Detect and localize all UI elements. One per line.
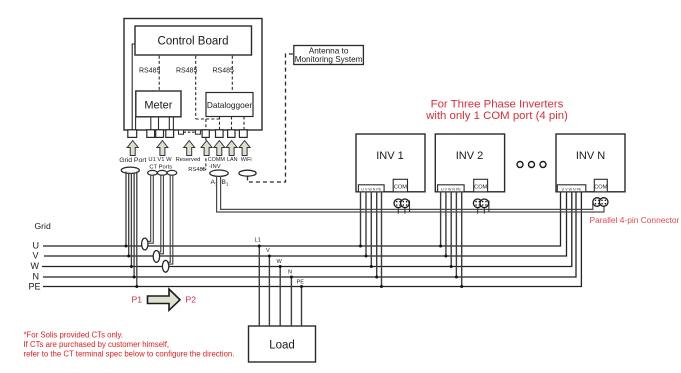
svg-text:P2: P2 <box>186 295 197 305</box>
junction INV1 U <box>359 245 362 248</box>
INV1 wire W <box>370 192 372 267</box>
WiFi terminal square <box>239 130 247 138</box>
dashed jog RS485 to COMM/INV port <box>196 118 220 120</box>
INV2 wire W <box>450 192 452 267</box>
wire meter to CT square 3 <box>168 117 170 130</box>
svg-text:INV 1: INV 1 <box>376 150 404 162</box>
inverter INV N box <box>556 134 625 192</box>
INV1 wire V <box>365 192 367 256</box>
junction INV1 V <box>365 255 368 258</box>
svg-text:INV 2: INV 2 <box>456 150 484 162</box>
CT1 wire b <box>148 175 153 244</box>
CT3 wire b <box>169 175 173 265</box>
CT ports arrow <box>157 141 168 156</box>
junction INV1 W <box>370 265 373 268</box>
W phase line <box>42 192 572 267</box>
CT3 sensor on W <box>162 260 168 272</box>
INV1 wire N <box>376 192 378 277</box>
load wire W <box>279 267 281 327</box>
svg-text:U V W N PE: U V W N PE <box>441 188 461 192</box>
junction load N <box>290 276 293 279</box>
CT2 wire b <box>160 175 164 254</box>
N neutral line <box>43 192 576 277</box>
svg-text:1: 1 <box>226 181 229 186</box>
dashed drop datalogger to COMM square <box>219 117 221 130</box>
load box <box>249 326 316 362</box>
wire meter to CT square 2 <box>158 117 160 130</box>
svg-text:U1 V1 W: U1 V1 W <box>148 157 172 163</box>
RS485 dashed link CB to Datalogger <box>231 56 233 93</box>
ellipsis dot 2 <box>529 162 535 168</box>
svg-text:N: N <box>33 272 40 282</box>
svg-text:*For Solis provided CTs only.: *For Solis provided CTs only. <box>24 331 124 340</box>
junction grid port PE <box>135 285 138 288</box>
INV2 wire U <box>440 192 442 246</box>
grid port wire N <box>133 173 135 278</box>
dashed drop datalogger to LAN square <box>231 117 233 130</box>
dash between RS485 label and line <box>202 168 205 170</box>
CT1 sensor on U <box>142 238 148 250</box>
INVN parallel 4-pin connector <box>593 198 608 207</box>
svg-text:Dataloggoer: Dataloggoer <box>207 100 252 110</box>
COMM arrow <box>214 141 225 156</box>
svg-text:-INV: -INV <box>209 164 221 170</box>
load wire PE <box>301 287 303 327</box>
svg-text:RS485: RS485 <box>139 68 161 75</box>
INV1 connector bracket <box>409 201 411 213</box>
svg-text:If CTs are purchased by custom: If CTs are purchased by customer himself… <box>24 340 170 349</box>
INVN UVWNPE terminal box <box>557 185 586 192</box>
svg-text:Meter: Meter <box>144 100 172 112</box>
svg-text:COM: COM <box>474 184 487 190</box>
svg-text:Monitoring System: Monitoring System <box>295 55 363 64</box>
junction load V <box>268 255 271 258</box>
svg-text:V: V <box>266 248 270 254</box>
V phase line <box>44 192 567 256</box>
junction grid port V <box>127 255 130 258</box>
RS485 dashed link CB to Meter <box>158 56 160 91</box>
RS485 bus wire B <box>221 176 593 209</box>
INV1 COM box <box>393 179 407 192</box>
junction grid port U <box>125 245 128 248</box>
svg-text:COMM: COMM <box>208 157 226 163</box>
svg-text:Parallel 4-pin Connector: Parallel 4-pin Connector <box>590 215 680 225</box>
svg-text:Load: Load <box>269 340 295 352</box>
INVN COM box <box>594 179 607 192</box>
wire meter to CT square 3b <box>172 117 174 130</box>
svg-text:LAN: LAN <box>227 157 238 163</box>
INV1 wire PE <box>381 192 383 287</box>
grid port wire W <box>130 173 132 266</box>
CT2 sensor on V <box>153 251 159 263</box>
svg-text:N: N <box>288 270 292 276</box>
grid port cable oval <box>121 167 139 173</box>
load wire N <box>290 277 292 326</box>
junction INV1 PE <box>380 285 383 288</box>
INV2 UVWNPE terminal box <box>438 185 465 192</box>
junction grid port W <box>130 265 133 268</box>
control board box <box>135 26 252 55</box>
INV1 wire U <box>360 192 362 246</box>
grid port wire PE <box>136 172 138 287</box>
WiFi arrow <box>239 141 250 156</box>
svg-text:P1: P1 <box>132 295 143 305</box>
ellipsis dot 3 <box>540 162 546 168</box>
svg-text:Grid: Grid <box>35 221 51 231</box>
ellipsis dot 1 <box>517 162 523 168</box>
svg-text:U: U <box>33 241 40 251</box>
U phase line <box>43 192 561 246</box>
svg-text:Control Board: Control Board <box>158 36 229 48</box>
svg-text:RS485: RS485 <box>213 68 235 75</box>
reserved connector left pin <box>179 130 184 134</box>
LAN arrow <box>226 141 237 156</box>
grid port wire V <box>128 173 130 257</box>
INV1 parallel 4-pin connector <box>394 199 409 208</box>
CT3 wire a <box>168 175 170 263</box>
junction INV2 N <box>455 276 458 279</box>
inverter INV 2 box <box>435 134 504 192</box>
COMM terminal square <box>216 130 224 138</box>
reserved connector right pin <box>195 130 200 134</box>
wire meter left to grid port square <box>135 117 137 130</box>
CT terminal square 1 <box>147 130 155 138</box>
svg-text:with only 1 COM port (4 pin): with only 1 COM port (4 pin) <box>425 110 568 122</box>
svg-text:PE: PE <box>29 282 41 292</box>
grid port arrow <box>127 141 138 156</box>
datalogger box <box>206 93 253 117</box>
control board outer enclosure <box>124 19 262 131</box>
dashed drop datalogger to WiFi square <box>243 117 245 130</box>
junction INV2 W <box>450 265 453 268</box>
grid port wire U <box>125 172 127 247</box>
dashed drop to RS485-INV square <box>205 119 207 130</box>
reserved arrow <box>184 141 195 156</box>
RS485-INV terminal square <box>202 130 209 138</box>
INV1 UVWNPE terminal box <box>358 185 384 192</box>
junction load W <box>279 265 282 268</box>
junction load L1 <box>258 245 261 248</box>
RS485 dashed link CB middle <box>195 56 197 119</box>
svg-text:refer to the CT terminal spec: refer to the CT terminal spec below to c… <box>24 350 235 359</box>
PE earth line <box>43 192 581 287</box>
wire meter to CT square 1 <box>150 117 152 130</box>
CT cable oval 2 <box>157 170 167 175</box>
CT cable oval 1 <box>148 170 158 175</box>
junction grid port N <box>133 276 136 279</box>
junction load PE <box>300 285 303 288</box>
svg-text:COM: COM <box>394 184 407 190</box>
COMM A1B1 cable oval <box>210 170 228 176</box>
junction INV2 U <box>439 245 442 248</box>
svg-text:Grid Port: Grid Port <box>119 157 146 164</box>
INV2 parallel 4-pin connector <box>473 199 488 208</box>
CT terminal square 2 <box>156 130 164 138</box>
reserved connector dashed middle <box>184 131 196 133</box>
meter box <box>136 91 181 117</box>
junction INV2 V <box>444 255 447 258</box>
CT terminal square 3 <box>166 130 174 138</box>
RS485-INV arrow <box>201 141 212 156</box>
antenna to monitoring system box <box>294 46 364 65</box>
INV2 wire N <box>455 192 457 277</box>
svg-text:RS485: RS485 <box>188 167 206 173</box>
dashed drop RS485-INV square to COMM oval <box>205 137 207 169</box>
svg-text:V: V <box>33 251 39 261</box>
load wire L1 <box>258 246 260 326</box>
P1 to P2 direction arrow <box>148 289 181 310</box>
grid port terminal square <box>128 130 137 138</box>
svg-text:RS485: RS485 <box>176 68 198 75</box>
inverter INV 1 box <box>356 134 425 192</box>
INV1 connector stub b <box>404 207 406 214</box>
svg-text:COM: COM <box>594 184 607 190</box>
svg-text:WiFi: WiFi <box>241 157 252 163</box>
INV1 connector stub a <box>397 207 399 214</box>
junction INV1 N <box>375 276 378 279</box>
INV2 connector stub a <box>477 207 479 214</box>
CT cable oval 3 <box>167 170 177 175</box>
CT2 wire a <box>159 175 161 253</box>
svg-text:CT Ports: CT Ports <box>149 165 172 171</box>
wire CB left edge down to grid port square <box>132 44 135 130</box>
svg-text:L1: L1 <box>255 238 261 244</box>
INV2 COM box <box>474 179 488 192</box>
LAN terminal square <box>228 130 235 138</box>
INV2 connector bracket <box>488 201 490 213</box>
wifi cable oval <box>239 170 256 176</box>
svg-text:U V W N PE: U V W N PE <box>562 188 582 192</box>
svg-text:W: W <box>31 261 40 271</box>
CT1 wire a <box>148 175 151 242</box>
svg-text:W: W <box>277 259 283 265</box>
INV2 wire PE <box>461 192 463 287</box>
svg-text:For Three Phase Inverters: For Three Phase Inverters <box>431 99 564 111</box>
load wire V <box>268 256 270 326</box>
junction INV2 PE <box>460 285 463 288</box>
INV2 connector stub b <box>483 207 485 214</box>
RS485 bus wire A <box>217 176 604 212</box>
dashed wire wifi oval to antenna box <box>248 54 294 182</box>
svg-text:PE: PE <box>297 280 305 286</box>
svg-text:INV N: INV N <box>576 150 605 162</box>
INV2 wire V <box>445 192 447 256</box>
svg-text:U V W N PE: U V W N PE <box>361 188 381 192</box>
svg-text:Reserved: Reserved <box>176 157 201 163</box>
